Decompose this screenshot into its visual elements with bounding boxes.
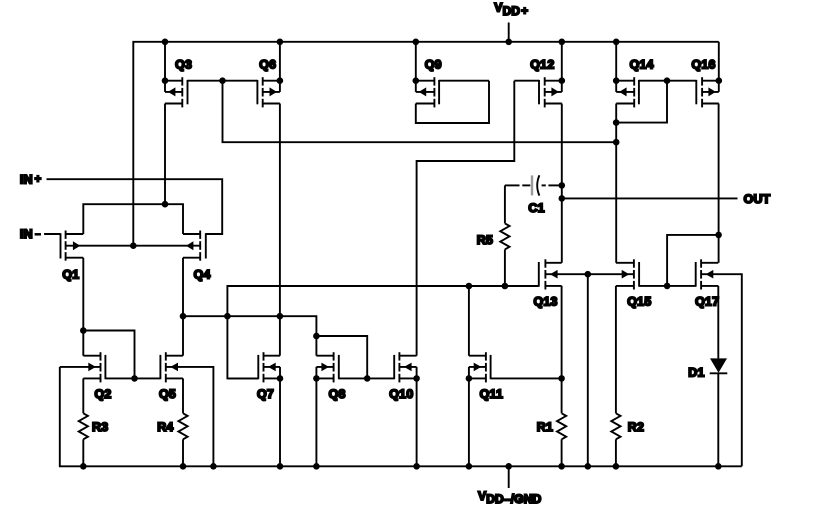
wire Q5 bulk to rail	[166, 367, 214, 466]
wire Q8 drain stub	[315, 336, 317, 356]
wire Q2 bulk to rail	[60, 366, 101, 368]
junction R5 bottom	[502, 283, 509, 290]
wire Q5 source to R4	[182, 378, 184, 413]
bulk arrow Q13	[550, 270, 558, 279]
junction Q9 rail	[413, 39, 420, 46]
junction Q5 bulk rail	[210, 463, 217, 470]
junction C1 right plate	[559, 182, 566, 189]
capacitor C1	[505, 175, 562, 215]
junction Q14 drain diode	[613, 119, 620, 126]
node VDD-/GND	[478, 466, 542, 506]
svg-text:Q14: Q14	[630, 58, 654, 72]
wire Q14 drain down to Q15 drain	[615, 104, 617, 263]
junction Q14/Q16 gate node	[664, 77, 671, 84]
junction R4 rail	[180, 463, 187, 470]
svg-text:Q17: Q17	[695, 295, 719, 309]
transistor Q4 (PMOS)	[183, 231, 222, 282]
junction R3 rail	[80, 463, 87, 470]
junction Q15/Q17 gate node	[664, 283, 671, 290]
junction Q12 rail	[559, 39, 566, 46]
wire Q7 drain stub	[279, 316, 281, 356]
diode D1	[688, 358, 727, 379]
resistor R1	[537, 413, 566, 466]
wire Q16 drain down to Q17 drain	[718, 104, 720, 263]
junction Q1 drain / Q2 gate tap	[80, 327, 87, 334]
wire Q14 source/bulk to rail	[615, 42, 617, 92]
svg-text:Q6: Q6	[259, 58, 276, 72]
transistor Q13 (NMOS)	[534, 259, 562, 308]
wire VDD-/GND rail	[60, 367, 742, 466]
junction bulk to VDD	[130, 242, 137, 249]
node OUT	[562, 192, 771, 206]
wire Q1 drain down to Q2 drain	[82, 258, 84, 356]
wire Q11 source to rail	[468, 378, 470, 466]
junction R2 rail	[613, 463, 620, 470]
junction Q3 source	[162, 77, 169, 84]
junction Q2/Q5 gate node	[131, 375, 138, 382]
transistor Q11 (NMOS)	[469, 352, 562, 401]
svg-text:Q13: Q13	[534, 295, 558, 309]
resistor R5	[477, 185, 510, 286]
svg-text:Q5: Q5	[159, 387, 176, 401]
node VDD+	[494, 1, 528, 42]
junction Q8 source	[313, 375, 320, 382]
svg-text:Q7: Q7	[257, 387, 274, 401]
bulk arrow Q1	[73, 241, 80, 250]
transistor Q16 (PMOS)	[667, 58, 719, 108]
wire bias to Q7 gate and Q13 gate	[227, 286, 538, 378]
svg-text:Q10: Q10	[389, 387, 413, 401]
junction mirror node mid	[224, 313, 231, 320]
bulk arrow Q15	[622, 270, 630, 279]
svg-text:Q1: Q1	[62, 268, 79, 282]
junction bulk line	[585, 271, 592, 278]
junction Q11 drain bias	[466, 283, 473, 290]
wire Q12 gate drop to Q10 drain	[417, 81, 515, 356]
resistor R3	[79, 413, 109, 466]
transistor Q6 (PMOS)	[223, 58, 280, 108]
wire Q11 drain up	[468, 286, 470, 356]
svg-text:R2: R2	[628, 420, 644, 434]
bulk arrow Q2	[88, 363, 96, 372]
transistor Q17 (NMOS)	[667, 259, 719, 308]
junction R1 rail	[558, 463, 565, 470]
wire IN- to Q1 gate	[44, 233, 60, 235]
junction Q11 rail	[466, 463, 473, 470]
svg-text:Q16: Q16	[692, 58, 716, 72]
transistor Q9 (PMOS)	[416, 58, 489, 108]
junction GND tap	[505, 463, 512, 470]
wire Q14 diode connection	[616, 81, 667, 123]
wire Q2 gate tie	[83, 331, 134, 379]
junction VDD tap	[505, 39, 512, 46]
junction bulk rail	[585, 463, 592, 470]
wire Q7 source to rail	[279, 378, 281, 466]
transistor Q12 (PMOS)	[514, 58, 562, 108]
junction Q14 rail	[613, 39, 620, 46]
wire Q13 source to R1	[561, 286, 563, 413]
wire Q8 source to rail	[315, 378, 317, 466]
junction Q7 rail	[277, 463, 284, 470]
junction Q4 drain mirror node	[180, 313, 187, 320]
svg-text:OUT: OUT	[744, 192, 771, 206]
transistor Q8 (NMOS)	[316, 352, 367, 401]
wire mirror node line	[183, 316, 316, 336]
junction Q8 drain node	[313, 333, 320, 340]
wire Q13/Q15 bulk line	[545, 273, 634, 275]
svg-text:IN: IN	[20, 172, 33, 186]
junction Q10 rail	[413, 463, 420, 470]
svg-text:Q9: Q9	[425, 58, 442, 72]
svg-text:+: +	[521, 6, 528, 18]
bulk arrow Q4	[186, 241, 193, 250]
svg-text:Q4: Q4	[194, 268, 211, 282]
junction mirror node at Q6/Q7	[277, 313, 284, 320]
svg-text:DD–/GND: DD–/GND	[486, 492, 541, 506]
wire gate bias drop to Q14 drain	[223, 81, 617, 143]
resistor R4	[157, 413, 187, 466]
wire VDD+ rail	[133, 42, 719, 246]
svg-text:DD: DD	[503, 4, 521, 18]
svg-text:Q8: Q8	[329, 387, 346, 401]
junction Q3/Q6 gate node	[219, 77, 226, 84]
wire bulk line to rail	[587, 274, 589, 466]
junction Q6 source	[277, 77, 284, 84]
svg-text:Q12: Q12	[530, 58, 554, 72]
wire D1 cathode to rail	[717, 373, 719, 466]
wire Q8 diode tie	[316, 336, 367, 378]
bulk arrow Q5	[170, 363, 178, 372]
wire Q3 drain to tail node	[164, 104, 166, 205]
junction Q16 source	[716, 77, 723, 84]
wire Q4 drain down to Q5 drain	[182, 258, 184, 356]
wire Q2 source to R3	[82, 378, 84, 413]
wire Q10 source to rail	[416, 378, 418, 466]
wire Q12 source/bulk to rail	[561, 42, 563, 92]
wire IN+ to Q4 gate	[47, 179, 223, 234]
wire Q12 drain down to Q13 drain	[561, 104, 563, 263]
wire Q6 source/bulk to rail	[279, 42, 281, 92]
junction Q8/Q10 gate node	[364, 375, 371, 382]
transistor Q3 (PMOS)	[165, 58, 223, 108]
svg-text:D1: D1	[688, 365, 704, 379]
junction Q8 rail	[313, 463, 320, 470]
junction Q14 source	[613, 77, 620, 84]
wire Q16 source/bulk from rail corner	[718, 42, 720, 92]
svg-text:C1: C1	[528, 201, 544, 215]
junction D1 rail	[715, 463, 722, 470]
junction Q11 gate at Q13 source	[558, 375, 565, 382]
junction Q10 source	[413, 375, 420, 382]
junction tail node	[162, 201, 169, 208]
transistor Q5 (NMOS)	[135, 352, 184, 401]
junction Q6 rail	[277, 39, 284, 46]
svg-text:R4: R4	[157, 420, 173, 434]
junction Q3 rail	[162, 39, 169, 46]
resistor R2	[611, 413, 644, 466]
junction Q12 source	[559, 77, 566, 84]
transistor Q15 (NMOS)	[616, 259, 667, 308]
wire Q15/Q17 gate tie-up	[667, 235, 719, 286]
wire Q6 drain down to mirror node	[279, 104, 281, 317]
junction Q7 source	[277, 375, 284, 382]
transistor Q10 (NMOS)	[367, 352, 416, 401]
svg-text:Q3: Q3	[175, 58, 192, 72]
junction Q9 source	[413, 77, 420, 84]
svg-text:+: +	[35, 174, 42, 186]
wire tail node line	[83, 204, 183, 234]
wire Q9 drain diode loop	[416, 81, 489, 123]
bulk arrow Q17	[706, 270, 714, 279]
junction bias line at Q14 drain	[613, 139, 620, 146]
junction Q11 source	[466, 375, 473, 382]
wire Q17 bulk to rail end	[701, 274, 742, 466]
transistor Q7 (NMOS)	[227, 352, 280, 401]
svg-text:R3: R3	[92, 420, 108, 434]
svg-text:Q2: Q2	[95, 387, 112, 401]
junction OUT at Q12 drain	[559, 195, 566, 202]
transistor Q2 (NMOS)	[83, 352, 134, 401]
svg-text:R5: R5	[477, 233, 493, 247]
svg-text:Q15: Q15	[627, 295, 651, 309]
wire Q15 source to R2	[615, 286, 617, 413]
wire Q9 source/bulk to rail	[415, 42, 417, 92]
wire Q17 source to D1	[717, 286, 719, 359]
svg-text:IN: IN	[20, 227, 33, 241]
transistor Q14 (PMOS)	[616, 58, 667, 108]
svg-text:R1: R1	[537, 420, 553, 434]
junction Q16/Q17 drain at gate tie	[715, 232, 722, 239]
svg-text:Q11: Q11	[480, 387, 504, 401]
transistor Q1 (PMOS)	[44, 231, 83, 282]
wire Q1/Q4 bulk line	[66, 245, 201, 247]
wire Q3 source/bulk to rail	[164, 42, 166, 92]
